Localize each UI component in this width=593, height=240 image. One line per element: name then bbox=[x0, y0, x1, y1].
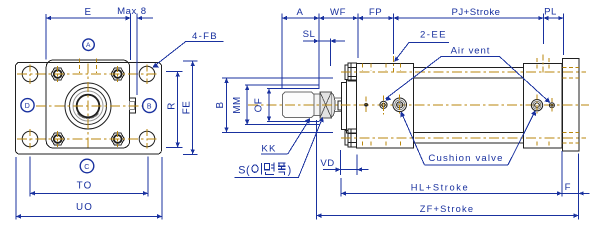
rear port centerline bbox=[542, 55, 544, 73]
rod end dome chamfer bbox=[332, 93, 336, 116]
front head block bbox=[357, 63, 414, 148]
svg-text:8: 8 bbox=[141, 6, 147, 17]
circled letter B bbox=[143, 99, 157, 113]
svg-text:OF: OF bbox=[254, 98, 265, 113]
gland boss bbox=[346, 80, 356, 133]
svg-text:KK: KK bbox=[261, 143, 276, 154]
centerline column left corner holes bbox=[29, 65, 31, 85]
gland cap plate bbox=[341, 83, 346, 130]
rear head block bbox=[523, 63, 562, 148]
top dimension chain line bbox=[282, 17, 563, 19]
dimension TO bbox=[29, 157, 31, 197]
svg-text:Max: Max bbox=[117, 6, 137, 17]
svg-text:4-FB: 4-FB bbox=[192, 31, 218, 42]
extension line PJ end bbox=[542, 14, 544, 45]
front port centerline bbox=[392, 56, 394, 73]
svg-text:SL: SL bbox=[303, 29, 316, 40]
front cushion valve screw bbox=[393, 98, 407, 112]
tie-rod nut bottom-right (front view) bbox=[111, 133, 124, 145]
svg-text:FE: FE bbox=[181, 101, 192, 115]
rear port hidden bore bottom bbox=[536, 142, 538, 149]
tie-rod nut top-right (front view) bbox=[111, 68, 124, 80]
front tie-rod nut bottom bbox=[345, 131, 348, 145]
svg-text:E: E bbox=[84, 7, 91, 18]
extension line rod tip / A start bbox=[281, 14, 283, 90]
svg-text:): ) bbox=[288, 164, 292, 176]
front port hidden bore bottom bbox=[385, 142, 387, 149]
svg-text:C: C bbox=[84, 164, 90, 171]
tie rod bottom edges between heads bbox=[413, 131, 523, 133]
rod tab at gland bbox=[338, 101, 341, 110]
piston rod between dome and gland bbox=[335, 97, 341, 99]
tie rod centerline top bbox=[341, 71, 586, 73]
extension line FP|PJ bbox=[392, 14, 394, 55]
svg-text:ZF+Stroke: ZF+Stroke bbox=[420, 204, 474, 214]
hidden tie rod through end plate top bbox=[563, 67, 579, 69]
flange plate outline bbox=[16, 62, 162, 154]
main horizontal centerline side view bbox=[248, 104, 589, 106]
svg-text:Cushion valve: Cushion valve bbox=[428, 153, 503, 164]
svg-text:UO: UO bbox=[76, 202, 93, 213]
svg-text:WF: WF bbox=[330, 7, 346, 18]
dimension HL+Stroke bbox=[340, 178, 342, 197]
svg-text:2-EE: 2-EE bbox=[420, 30, 447, 41]
square tube face behind flange bbox=[46, 60, 130, 148]
main horizontal centerline front view bbox=[36, 105, 144, 107]
svg-text:B: B bbox=[215, 101, 226, 108]
svg-text:FP: FP bbox=[369, 7, 382, 18]
svg-text:S(: S( bbox=[238, 164, 250, 176]
front SL port hidden bore bbox=[361, 63, 363, 70]
hangul 이면폭 drawn as strokes bbox=[298, 119, 322, 178]
front rod-bushing dot bbox=[365, 103, 368, 106]
extension line WF|FP bbox=[357, 14, 359, 59]
dimension F bbox=[578, 154, 580, 220]
tie-rod nut bottom-left (front view) bbox=[51, 133, 64, 145]
dimension ZF+Stroke bbox=[315, 120, 317, 219]
centerline row through upper holes bbox=[17, 73, 159, 75]
piston rod boss circles bbox=[65, 83, 111, 129]
centerline column right corner holes bbox=[146, 65, 148, 85]
dimension R bbox=[166, 71, 183, 73]
tie-rod nut top-left (front view) bbox=[51, 68, 64, 80]
piston rod thread block bbox=[282, 92, 314, 118]
front port hidden bore bbox=[385, 63, 387, 70]
front air vent screw bbox=[380, 101, 387, 108]
svg-text:VD: VD bbox=[320, 158, 334, 169]
main vertical centerline front view bbox=[87, 64, 89, 151]
rear port hidden bore bbox=[536, 58, 538, 70]
tie rod top edges between heads bbox=[413, 67, 523, 69]
rear cushion valve screw bbox=[531, 100, 542, 111]
rear end plate bbox=[563, 59, 579, 152]
hidden port bore lines top (front view) bbox=[79, 59, 81, 74]
corner hole top-left bbox=[22, 66, 38, 82]
circled letter A bbox=[83, 39, 95, 51]
dimension SL bbox=[329, 39, 331, 67]
rod neck collar bbox=[314, 94, 320, 116]
centerline row through lower holes bbox=[17, 138, 159, 140]
dimension OF bbox=[267, 88, 320, 90]
svg-text:F: F bbox=[565, 182, 571, 193]
dimension Max 8 bbox=[130, 14, 132, 61]
dimension UO bbox=[15, 157, 17, 220]
corner hole top-right bbox=[139, 66, 155, 82]
svg-text:B: B bbox=[147, 103, 152, 110]
hidden tie rod through end plate bottom bbox=[563, 131, 579, 133]
centerline column right tie-rod nuts bbox=[117, 66, 119, 82]
dimension E bbox=[45, 14, 47, 60]
tie rod centerline bottom bbox=[341, 137, 586, 139]
extension line PL end bbox=[562, 14, 564, 56]
svg-text:PJ+Stroke: PJ+Stroke bbox=[451, 7, 500, 18]
centerline column left tie-rod nuts bbox=[57, 66, 59, 82]
dimension MM (rod dia) bbox=[245, 84, 320, 86]
svg-text:A: A bbox=[297, 7, 304, 18]
svg-text:PL: PL bbox=[544, 7, 557, 18]
svg-text:R: R bbox=[166, 102, 177, 110]
rod wrench flats S with X marks bbox=[320, 92, 332, 118]
rear air vent screw bbox=[549, 103, 554, 108]
svg-text:TO: TO bbox=[77, 181, 93, 192]
circled letter D bbox=[21, 99, 34, 112]
svg-text:Air vent: Air vent bbox=[451, 45, 491, 56]
corner hole bottom-right bbox=[139, 131, 155, 147]
corner hole bottom-left bbox=[22, 131, 38, 147]
svg-text:MM: MM bbox=[232, 96, 243, 113]
front tie-rod nut top bbox=[345, 65, 348, 79]
dimension FE bbox=[183, 60, 198, 62]
svg-text:D: D bbox=[25, 103, 31, 110]
dimension B (tube OD) bbox=[222, 77, 333, 79]
circled letter C bbox=[80, 159, 94, 173]
extension line A|WF bbox=[318, 14, 320, 90]
svg-text:A: A bbox=[86, 42, 91, 49]
svg-text:HL+Stroke: HL+Stroke bbox=[411, 182, 470, 192]
port tab on right edge (Max 8 feature) bbox=[130, 98, 136, 113]
